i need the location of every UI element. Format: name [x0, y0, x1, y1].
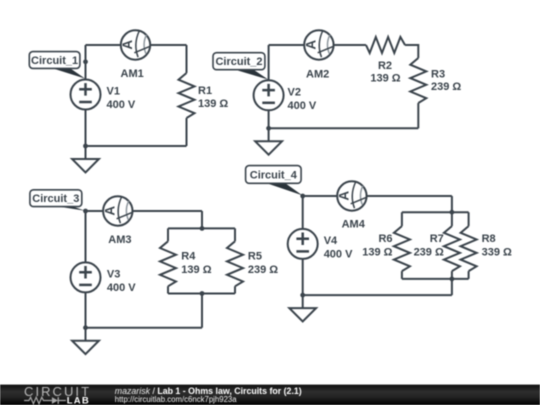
svg-text:R2: R2 — [378, 60, 392, 72]
ammeter AM1 — [120, 30, 151, 59]
svg-text:R4: R4 — [181, 251, 196, 263]
label R4 value — [181, 251, 211, 277]
wire c4 bottom rail — [402, 278, 469, 280]
wire c3 top rail — [168, 227, 235, 229]
wire c3 R4 stubs — [167, 228, 169, 293]
svg-text:R5: R5 — [248, 251, 262, 263]
node c3 rail bottom — [200, 291, 205, 296]
wire c1 left — [85, 45, 87, 146]
svg-text:Circuit_3: Circuit_3 — [32, 193, 79, 205]
wire c4 left — [302, 196, 304, 295]
node c3 ground junction — [83, 325, 88, 330]
wire c4 bottom — [303, 294, 452, 296]
label V2 value — [288, 86, 317, 112]
ground c1 — [72, 146, 99, 172]
voltage source V4 — [288, 229, 318, 259]
label V3 value — [107, 268, 136, 294]
svg-text:V4: V4 — [324, 235, 338, 247]
wire c2 bottom — [269, 127, 419, 129]
svg-text:339 Ω: 339 Ω — [482, 247, 512, 259]
label R3 value — [431, 69, 461, 94]
svg-text:400 V: 400 V — [107, 282, 136, 294]
svg-text:Circuit_1: Circuit_1 — [31, 55, 78, 67]
wire c4 R7 stubs — [451, 212, 453, 279]
svg-text:239 Ω: 239 Ω — [248, 264, 278, 276]
wire c3 R5 stubs — [234, 228, 236, 293]
resistor R7 — [444, 226, 460, 271]
svg-text:AM1: AM1 — [121, 68, 144, 80]
label Circuit_3 — [30, 190, 85, 211]
wire c4 R8 stubs — [468, 212, 470, 279]
node c4 rail top — [450, 210, 455, 215]
resistor R3 — [410, 58, 426, 103]
resistor R4 — [160, 241, 176, 286]
label V1 value — [107, 86, 136, 112]
svg-text:139 Ω: 139 Ω — [181, 264, 211, 276]
svg-text:R8: R8 — [482, 233, 496, 245]
wire c3 bottom rail — [168, 293, 235, 295]
label Circuit_4 — [246, 166, 303, 196]
label R8 value — [482, 233, 512, 259]
wire c3 left — [85, 211, 87, 328]
wire c4 top rail — [402, 211, 469, 213]
svg-text:400 V: 400 V — [288, 100, 317, 112]
svg-text:Circuit_4: Circuit_4 — [250, 169, 298, 181]
node c2 ground junction — [266, 126, 271, 131]
resistor R5 — [227, 241, 243, 286]
footer bar — [0, 385, 540, 405]
wire c1 bottom — [86, 145, 187, 147]
label V4 value — [324, 235, 353, 261]
wire c3 bottom drop — [201, 294, 203, 328]
wire c4 bottom drop — [451, 279, 453, 295]
wire c1 top — [86, 44, 187, 46]
resistor R8 — [461, 226, 477, 271]
svg-text:R3: R3 — [431, 69, 445, 81]
node c4 rail bottom — [450, 277, 455, 282]
voltage source V3 — [71, 262, 101, 292]
wire c2 left — [268, 45, 270, 128]
voltage source V1 — [71, 80, 101, 110]
wire c3 bottom — [86, 327, 203, 329]
svg-text:R7: R7 — [430, 233, 444, 245]
svg-text:400 V: 400 V — [324, 248, 353, 260]
node c1 label anchor — [83, 59, 88, 64]
wire c1 right lower — [186, 118, 188, 146]
svg-text:139 Ω: 139 Ω — [362, 247, 392, 259]
wire c4 R6 stubs — [401, 212, 403, 279]
svg-text:AM3: AM3 — [108, 234, 131, 246]
resistor R6 — [394, 226, 410, 271]
node c1 ground junction — [83, 144, 88, 149]
label R5 value — [248, 251, 278, 277]
svg-text:AM4: AM4 — [342, 218, 366, 230]
ground c4 — [289, 295, 316, 321]
wire c2 right lower — [417, 103, 419, 128]
wire c3 right drop — [201, 211, 203, 228]
node c4 ground junction — [300, 293, 305, 298]
wire c2 top right — [405, 45, 418, 58]
svg-text:AM2: AM2 — [306, 69, 329, 81]
resistor R1 — [179, 73, 195, 118]
svg-text:239 Ω: 239 Ω — [414, 247, 444, 259]
svg-text:V1: V1 — [107, 86, 120, 98]
wire c4 top — [303, 195, 452, 197]
svg-text:V2: V2 — [288, 86, 301, 98]
label R1 value — [198, 85, 228, 110]
wire c3 top — [86, 210, 203, 212]
svg-text:V3: V3 — [107, 268, 120, 280]
svg-text:239 Ω: 239 Ω — [431, 81, 461, 93]
svg-text:LAB: LAB — [67, 395, 90, 405]
svg-text:R1: R1 — [198, 85, 212, 97]
label R2 value — [370, 60, 400, 85]
svg-text:R6: R6 — [378, 233, 392, 245]
resistor R2 — [366, 37, 405, 53]
svg-text:139 Ω: 139 Ω — [198, 98, 228, 110]
voltage source V2 — [254, 80, 284, 110]
wire c4 top drop — [451, 196, 453, 212]
node c3 top-left — [83, 209, 88, 214]
label R7 value — [414, 233, 444, 259]
ground c3 — [72, 328, 99, 354]
svg-text:Circuit_2: Circuit_2 — [215, 56, 262, 68]
wire c2 top left — [269, 44, 366, 46]
svg-text:400 V: 400 V — [107, 99, 136, 111]
logo diode — [52, 397, 58, 404]
label Circuit_2 — [213, 53, 268, 80]
svg-text:http://circuitlab.com/c6nck7pj: http://circuitlab.com/c6nck7pjh923a — [115, 395, 237, 404]
wire c1 right upper — [186, 45, 188, 73]
svg-text:139 Ω: 139 Ω — [370, 73, 400, 85]
node c3 rail top — [200, 226, 205, 231]
ammeter AM3 — [102, 196, 133, 225]
ammeter AM4 — [336, 181, 367, 210]
ammeter AM2 — [303, 30, 334, 59]
logo squiggle wire — [24, 397, 66, 403]
label Circuit_1 — [29, 52, 85, 79]
label R6 value — [362, 233, 392, 259]
node c4 top-left — [300, 194, 305, 199]
ground c2 — [255, 128, 282, 154]
